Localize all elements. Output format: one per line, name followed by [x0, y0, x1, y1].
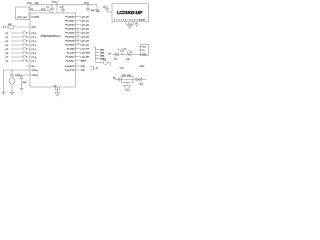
LCD vcc pin [135, 22, 138, 26]
pin P2.1 [67, 51, 91, 54]
junction dot crystal [11, 69, 12, 70]
svg-text:LCD_RS: LCD_RS [81, 48, 90, 50]
pin label EA [26, 65, 35, 68]
junction dot at C3 [87, 4, 88, 5]
svg-text:LCD_D1: LCD_D1 [81, 20, 90, 22]
transistor Q1 [126, 51, 132, 61]
svg-text:P1.1: P1.1 [32, 37, 37, 39]
pin P0.4 [65, 31, 90, 34]
svg-text:P1.7: P1.7 [32, 61, 37, 63]
MCU U1 body [30, 13, 76, 87]
svg-text:VO: VO [142, 50, 145, 52]
pin P0.7 [65, 43, 90, 46]
pin P2.2 [66, 55, 90, 58]
svg-text:GND: GND [140, 66, 145, 68]
net tick D7 [96, 58, 106, 60]
svg-text:P1.3: P1.3 [32, 45, 37, 47]
diode D1 [114, 53, 119, 61]
svg-text:CLK: CLK [35, 3, 40, 5]
svg-text:P0.7/AD7: P0.7/AD7 [65, 43, 75, 46]
junction dot bus [77, 28, 78, 29]
buzzer LS1 [96, 59, 111, 66]
net bracket wire [93, 47, 96, 63]
button K1 [6, 31, 31, 35]
ground under crystal [10, 92, 15, 94]
svg-text:CLK: CLK [41, 9, 46, 11]
wire contrast [112, 54, 141, 56]
junction dot pot [121, 54, 122, 55]
svg-text:P0.2/AD2: P0.2/AD2 [65, 23, 75, 26]
svg-text:XTAL2: XTAL2 [32, 74, 39, 77]
svg-text:VCC: VCC [142, 46, 147, 48]
junction dot at VCC pin [56, 4, 57, 5]
svg-text:P0.1/AD1: P0.1/AD1 [65, 19, 75, 22]
pin P0.6 [65, 39, 90, 42]
pin P3.1 [65, 70, 85, 72]
svg-text:P1.6: P1.6 [32, 57, 37, 59]
svg-text:TXD: TXD [81, 70, 86, 72]
pin P0.5 [65, 35, 90, 38]
svg-text:RXD: RXD [81, 66, 86, 68]
svg-text:P0.3/AD3: P0.3/AD3 [65, 27, 75, 30]
svg-text:P1.2: P1.2 [32, 41, 37, 43]
crystal Y1 [9, 70, 22, 92]
svg-text:VCC: VCC [27, 3, 32, 5]
ground bottom right [138, 80, 144, 86]
svg-text:LCD_D5: LCD_D5 [81, 36, 90, 38]
wire left branch [3, 70, 5, 92]
button K3 [6, 39, 31, 43]
svg-text:P2.0/A8: P2.0/A8 [67, 47, 76, 50]
capacitor C5 [103, 6, 112, 13]
svg-text:GND: GND [142, 54, 147, 56]
svg-text:P3.1/TXD: P3.1/TXD [65, 70, 75, 72]
button K7 [6, 55, 31, 59]
svg-text:LCD_RW: LCD_RW [81, 52, 91, 54]
capacitor C8 [118, 48, 127, 55]
power flag VCC [52, 2, 59, 5]
connector J2 [139, 45, 149, 57]
ground left [2, 92, 6, 94]
svg-text:P0.6/AD6: P0.6/AD6 [65, 39, 75, 42]
svg-text:10K: 10K [8, 24, 12, 26]
capacitor C7 [20, 75, 27, 88]
svg-text:P3.0/RXD: P3.0/RXD [65, 66, 75, 68]
bus wire [77, 29, 79, 45]
svg-text:LCD_D3: LCD_D3 [81, 28, 90, 30]
pin P2.3 [66, 59, 87, 62]
diode D2 [136, 78, 140, 81]
svg-text:XTAL1: XTAL1 [32, 69, 39, 72]
net tick D6 [96, 55, 106, 57]
capacitor C1 [46, 5, 54, 13]
button K2 [6, 35, 31, 39]
svg-text:P0.5/AD5: P0.5/AD5 [65, 35, 75, 38]
net tick D5 [96, 52, 106, 54]
junction dot at C1 [51, 4, 52, 5]
svg-text:RST: RST [32, 27, 37, 29]
pin P2.0 [67, 47, 90, 50]
capacitor C4 [95, 5, 100, 13]
button K6 [6, 51, 31, 55]
wire XTAL1 [4, 69, 31, 71]
svg-text:LCD_EN: LCD_EN [81, 56, 90, 58]
wire XTAL2 [22, 74, 31, 76]
svg-text:LCD_D0: LCD_D0 [81, 16, 90, 18]
svg-text:LCD_D2: LCD_D2 [81, 24, 90, 26]
svg-text:P1.0: P1.0 [32, 33, 37, 35]
led LED1 [124, 83, 131, 91]
button K8 [6, 59, 31, 63]
svg-text:P2.2/A10: P2.2/A10 [66, 55, 76, 58]
svg-text:P0.4/AD4: P0.4/AD4 [65, 31, 75, 34]
pin P0.3 [65, 27, 90, 30]
ground U1 [55, 87, 60, 96]
svg-text:VCC: VCC [52, 2, 57, 4]
svg-text:LCD_D6: LCD_D6 [81, 40, 90, 42]
svg-text:LCD_D7: LCD_D7 [81, 44, 90, 46]
ground under C7 [20, 88, 24, 90]
svg-text:P1.4: P1.4 [32, 49, 37, 51]
svg-text:LCD1602-16P: LCD1602-16P [117, 10, 143, 15]
pin P0.2 [65, 23, 90, 26]
net tick D4 [96, 49, 106, 51]
svg-text:LCD_D4: LCD_D4 [81, 32, 90, 34]
svg-text:13 14: 13 14 [140, 20, 147, 22]
connector J1 [90, 66, 99, 70]
VCC rail wire [30, 5, 97, 11]
LCD ground pins [126, 22, 134, 28]
svg-text:P1.5: P1.5 [32, 53, 37, 55]
button K5 [6, 47, 31, 51]
oscillator module X1 [16, 7, 30, 20]
svg-text:P2.3/A11: P2.3/A11 [66, 59, 76, 62]
svg-text:VCC: VCC [120, 67, 125, 69]
resistor R1 [1, 24, 30, 29]
pin P3.0 [65, 66, 86, 68]
svg-text:BEEP: BEEP [81, 60, 87, 62]
svg-text:P0.0/AD0: P0.0/AD0 [65, 15, 75, 18]
svg-text:VO: VO [108, 53, 111, 55]
capacitor C3 [86, 5, 95, 12]
backlight wire [115, 79, 147, 81]
svg-text:VCC: VCC [84, 3, 89, 5]
resistor RP1 [122, 75, 134, 83]
svg-text:OSC 12M: OSC 12M [17, 17, 27, 19]
svg-text:U1 8052: U1 8052 [31, 16, 40, 18]
svg-text:10K: 10K [126, 59, 130, 61]
button K4 [6, 43, 31, 47]
svg-text:12MHz: 12MHz [15, 75, 22, 77]
capacitor C2 [60, 5, 65, 13]
capacitor C9 [118, 78, 120, 82]
svg-text:RP1 10K: RP1 10K [122, 75, 131, 77]
LCD module LCD1 [112, 3, 149, 22]
pin P0.1 [65, 19, 90, 22]
wire VCC pin to U1 [56, 5, 58, 13]
svg-text:P2.1/A9: P2.1/A9 [67, 51, 76, 54]
wire from X1 to U1 top [30, 11, 51, 14]
pin P0.0 [65, 15, 90, 18]
svg-text:AT89C51RC2PLCC: AT89C51RC2PLCC [41, 35, 62, 38]
